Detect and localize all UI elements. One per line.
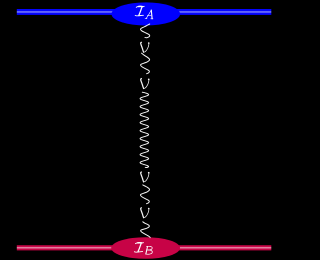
wiggle segment w3 [140, 185, 149, 204]
blob I_A [112, 2, 181, 25]
label I_A (script I) [135, 6, 144, 16]
wiggle segment w1 [140, 24, 149, 38]
label subscript A [145, 10, 153, 19]
wiggle segment w2 [140, 53, 149, 73]
nu label 2 [141, 79, 150, 89]
label subscript B [146, 246, 153, 254]
central coil [140, 92, 148, 167]
label I_B (script I) [134, 243, 143, 253]
nu label 4 [141, 208, 150, 218]
photon propagator [140, 24, 150, 238]
blob I_B [111, 237, 180, 259]
wiggle segment w4 [141, 222, 151, 238]
nu label 3 [141, 172, 150, 182]
nu label 1 [141, 42, 150, 52]
source world-line A (blue double line) [17, 9, 271, 15]
source world-line B (crimson double line) [17, 245, 271, 250]
